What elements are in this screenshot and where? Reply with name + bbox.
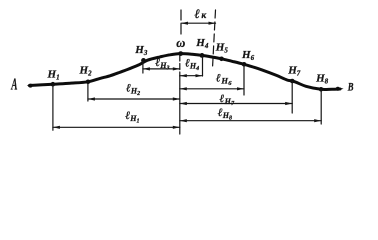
- svg-text:ℓк: ℓк: [194, 6, 207, 21]
- wire H6 tick: [243, 65, 245, 95]
- svg-text:ℓH7: ℓH7: [220, 93, 236, 107]
- node H8 dot: [319, 87, 324, 92]
- wire H2 tick: [87, 84, 89, 101]
- svg-text:H6: H6: [241, 49, 255, 62]
- dimension lH3: [143, 67, 180, 70]
- svg-text:H7: H7: [287, 64, 301, 77]
- node H3 dot: [141, 58, 146, 63]
- node H1 dot: [51, 82, 56, 87]
- dimension lK: [181, 22, 216, 25]
- wire H7 tick: [291, 82, 293, 114]
- node H7 dot: [290, 79, 295, 84]
- dimension lH6: [180, 87, 244, 90]
- svg-text:H2: H2: [79, 65, 93, 78]
- svg-text:ℓH1: ℓH1: [125, 110, 139, 125]
- svg-text:ℓH2: ℓH2: [126, 83, 140, 98]
- wire profile curve A to B: [30, 54, 341, 90]
- svg-text:B: B: [347, 81, 354, 93]
- svg-text:ℓH8: ℓH8: [218, 107, 232, 122]
- dimension lH8: [180, 119, 321, 122]
- svg-text:ℓH4: ℓH4: [185, 58, 199, 73]
- svg-text:H8: H8: [315, 73, 329, 86]
- node H5 dot: [219, 57, 224, 62]
- dimension lH4: [180, 74, 203, 77]
- svg-text:H4: H4: [195, 37, 209, 50]
- node A end arrowhead: [27, 84, 32, 88]
- wire H1 tick: [52, 85, 54, 130]
- svg-text:A: A: [11, 75, 18, 94]
- wire H4 tick: [202, 56, 204, 76]
- wire lK right tick (dashed): [213, 10, 216, 68]
- wire H8 tick: [320, 90, 322, 124]
- node H2 dot: [86, 80, 91, 85]
- wire lK left tick (dashed): [180, 10, 182, 35]
- svg-text:H5: H5: [215, 41, 229, 54]
- dimension lH2: [88, 97, 180, 100]
- node B end arrowhead: [337, 87, 343, 91]
- dimension lH7: [180, 102, 292, 105]
- svg-text:H1: H1: [47, 69, 60, 82]
- svg-text:ω: ω: [176, 36, 185, 50]
- node H6 dot: [242, 62, 247, 67]
- dimension lH1: [53, 126, 180, 129]
- node H4 dot: [200, 53, 205, 58]
- svg-text:ℓH6: ℓH6: [216, 73, 232, 88]
- wire center vertical line below omega: [179, 55, 181, 76]
- svg-text:H3: H3: [134, 44, 148, 57]
- wire H3 tick: [142, 61, 144, 73]
- node omega dot: [178, 51, 183, 56]
